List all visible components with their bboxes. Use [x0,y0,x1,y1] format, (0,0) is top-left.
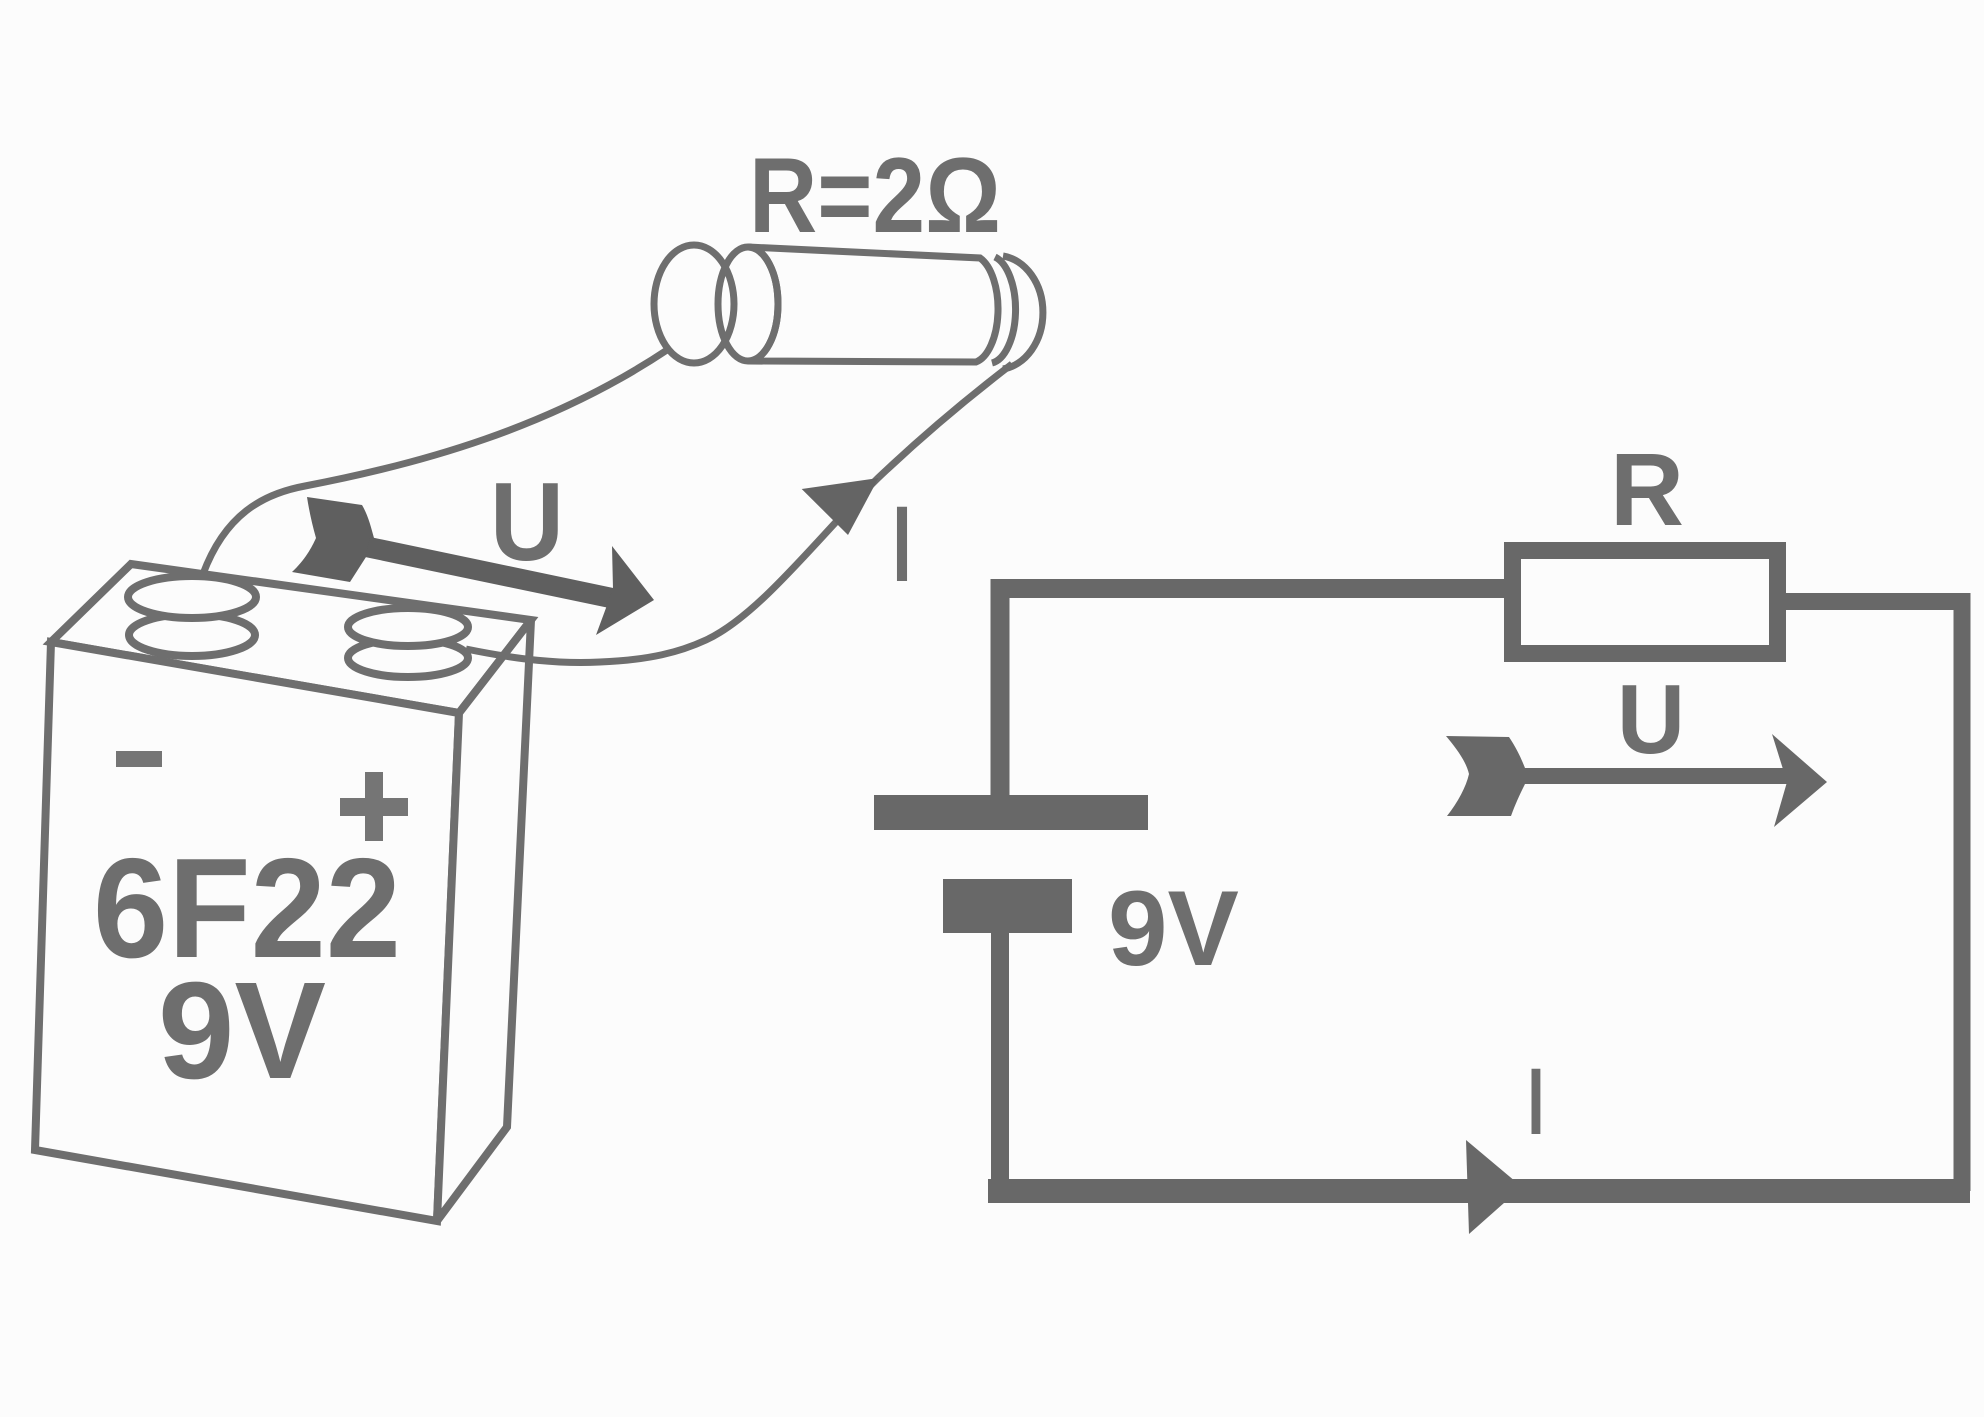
svg-text:I: I [887,483,917,604]
svg-text:R=2Ω: R=2Ω [749,135,1001,255]
svg-text:R: R [1610,432,1684,547]
svg-text:I: I [1523,1049,1549,1155]
svg-text:U: U [1617,664,1685,774]
svg-text:U: U [490,460,564,584]
svg-text:9V: 9V [1108,868,1239,988]
svg-text:9V: 9V [158,954,326,1108]
